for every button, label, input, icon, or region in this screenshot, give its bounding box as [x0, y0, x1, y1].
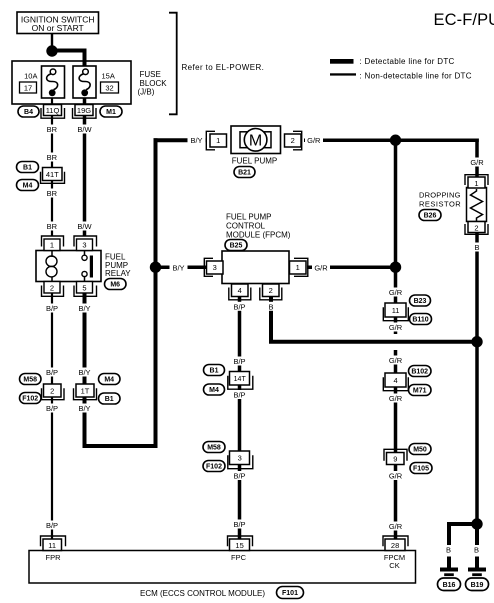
relay pin 3: [74, 236, 97, 247]
svg-text:G/R: G/R: [389, 356, 403, 365]
connector F102 oval: [20, 393, 42, 404]
svg-text:M4: M4: [104, 377, 114, 384]
svg-text:11Q: 11Q: [46, 106, 60, 115]
svg-text:B21: B21: [238, 170, 251, 177]
svg-text:B23: B23: [414, 298, 427, 305]
svg-text:EC-F/PUMP: EC-F/PUMP: [434, 11, 494, 29]
connector M71 oval: [409, 385, 432, 396]
wire ground branch left (thick): [449, 524, 477, 545]
relay coil: [51, 251, 53, 258]
connector B23 oval: [410, 295, 431, 306]
wire junction to fuse 15A (thick): [52, 51, 85, 67]
svg-text:BLOCK: BLOCK: [140, 79, 168, 88]
connector B25 oval: [225, 240, 247, 251]
label G/R at FPCM pin 1: [312, 262, 330, 272]
svg-text:M: M: [249, 133, 262, 150]
connector F105 oval: [410, 463, 432, 474]
label G/R: [387, 522, 405, 532]
wire ground stub B19: [475, 557, 479, 569]
connector 3 (M58/F102): [228, 455, 253, 468]
wire G/R column lower (thick): [394, 350, 398, 540]
svg-text:B/Y: B/Y: [172, 263, 184, 272]
svg-text:2: 2: [50, 283, 54, 292]
wire B/Y relay down (thick): [83, 293, 87, 448]
label B/P: [231, 471, 248, 481]
ECM box: [29, 551, 416, 584]
svg-text:B/W: B/W: [77, 222, 92, 231]
svg-text:MODULE (FPCM): MODULE (FPCM): [226, 230, 291, 239]
label G/R: [387, 471, 405, 481]
fuse number 32: [101, 82, 119, 93]
label B/P: [44, 521, 61, 531]
svg-text:1: 1: [216, 136, 220, 145]
svg-text:B/P: B/P: [233, 357, 245, 366]
svg-text:B/P: B/P: [233, 472, 245, 481]
wire B/Y riser x=155.5 (thick): [154, 138, 158, 448]
label B at ground B16: [444, 545, 454, 555]
svg-text:FUEL PUMP: FUEL PUMP: [232, 157, 278, 166]
svg-text:FUSE: FUSE: [140, 70, 161, 79]
label BR: [43, 189, 60, 199]
svg-text:5: 5: [82, 283, 86, 292]
svg-text:M1: M1: [106, 109, 116, 116]
svg-text:Refer to EL-POWER.: Refer to EL-POWER.: [182, 63, 265, 72]
label B/P: [231, 520, 248, 530]
svg-text:M58: M58: [207, 445, 221, 452]
svg-text:B/P: B/P: [233, 391, 245, 400]
fuel pump pin 1: [206, 131, 215, 150]
label B/Y horizontal at fuel pump: [188, 135, 206, 145]
svg-text:B/P: B/P: [46, 404, 58, 413]
fuse block J/B box: [12, 61, 131, 104]
svg-text:F102: F102: [22, 396, 38, 403]
relay pin 2: [42, 286, 64, 297]
svg-text:B1: B1: [23, 165, 32, 172]
svg-text:1T: 1T: [81, 387, 90, 396]
svg-text:3: 3: [82, 241, 86, 250]
svg-text:RELAY: RELAY: [105, 269, 131, 278]
svg-text:M58: M58: [23, 377, 37, 384]
FPCM body: [222, 251, 289, 284]
svg-text:41T: 41T: [46, 170, 59, 179]
svg-text:B/W: B/W: [77, 125, 92, 134]
svg-text:B19: B19: [471, 582, 484, 589]
svg-text:M71: M71: [413, 388, 427, 395]
fuel pump body: [231, 126, 281, 154]
svg-text:2: 2: [474, 223, 478, 232]
svg-text:B16: B16: [443, 582, 456, 589]
svg-text:M50: M50: [413, 447, 427, 454]
svg-text:1: 1: [474, 179, 478, 188]
svg-text:G/R: G/R: [314, 263, 328, 272]
ECM pin 15 FPC: [228, 536, 253, 546]
svg-text:B: B: [268, 302, 273, 311]
svg-text:B/Y: B/Y: [78, 368, 90, 377]
connector B102 oval: [409, 366, 432, 377]
svg-text:RESISTOR: RESISTOR: [419, 199, 461, 208]
svg-text:B/Y: B/Y: [190, 136, 202, 145]
svg-text:11: 11: [392, 306, 400, 315]
wire G/R FPCM pin 1 to junction (thick): [307, 265, 396, 269]
FPCM pin 1: [294, 258, 308, 276]
fuse F2 15A: [73, 66, 96, 98]
junction dot G/R top: [390, 135, 401, 146]
label B/W: [76, 125, 94, 135]
svg-text:BR: BR: [47, 189, 58, 198]
svg-text:B: B: [474, 243, 479, 252]
label G/R: [387, 394, 405, 404]
FPCM pin 2: [260, 288, 282, 300]
junction dot ignition feed: [46, 45, 57, 56]
connector 14T (B1/M4): [228, 376, 253, 389]
FPCM pin 3: [204, 258, 213, 276]
wire G/R-B dropping resistor column (thick): [475, 139, 479, 527]
svg-text:2: 2: [269, 286, 273, 295]
label G/R above resistor: [468, 158, 486, 168]
label B/Y: [76, 404, 93, 414]
svg-text:G/R: G/R: [389, 472, 403, 481]
wire B/P FPCM pin 4 to ECM (thick): [238, 296, 242, 539]
connector 11Q: [41, 108, 65, 118]
resistor zigzag: [471, 189, 483, 221]
svg-text:2: 2: [50, 387, 54, 396]
connector 19G: [73, 108, 97, 118]
connector B4: [18, 106, 39, 117]
label B/Y at FPCM pin 3: [170, 262, 188, 272]
connector M1: [100, 106, 122, 117]
svg-text:(J/B): (J/B): [138, 88, 155, 97]
relay pin 5: [74, 286, 97, 297]
junction dot G/R mid: [390, 262, 401, 273]
connector 9 (M50/F105): [384, 449, 407, 461]
label B/P: [231, 390, 248, 400]
svg-text:B25: B25: [230, 243, 243, 250]
fuse number 17: [20, 82, 37, 93]
svg-text:11: 11: [48, 541, 56, 550]
connector M50 oval: [409, 444, 431, 455]
label B/P: [44, 368, 61, 378]
legend detectable line: [330, 59, 354, 64]
wire BR column fuse to relay: [51, 96, 53, 236]
svg-text:B1: B1: [105, 396, 114, 403]
svg-text:17: 17: [24, 84, 32, 93]
junction dot B/Y at relay level: [150, 262, 161, 273]
ECM pin 11 FPR: [41, 536, 66, 546]
svg-text:DROPPING: DROPPING: [419, 190, 461, 199]
connector F101 oval: [277, 587, 304, 599]
wire B horizontal to resistor column (thick): [269, 340, 479, 344]
svg-text:BR: BR: [47, 222, 58, 231]
connector B1 oval: [204, 365, 225, 376]
wire B/Y to fuel pump pin 1 (thick): [154, 138, 207, 142]
connector M58 oval: [20, 374, 42, 385]
ignition switch box: [17, 12, 99, 34]
svg-text:ON or START: ON or START: [32, 23, 84, 33]
fuse F1 10A: [42, 66, 65, 98]
svg-text:B/P: B/P: [233, 520, 245, 529]
label B/P: [44, 304, 61, 314]
label B at ground B19: [472, 545, 482, 555]
wire ground stub B16: [447, 557, 451, 569]
svg-text:B1: B1: [210, 368, 219, 375]
svg-text:15: 15: [235, 541, 243, 550]
resistor pin 1: [465, 175, 488, 185]
wire B/W column fuse to relay (thick): [83, 96, 87, 236]
label BR: [43, 153, 60, 163]
svg-text:10A: 10A: [24, 72, 37, 81]
connector M58 oval: [203, 442, 225, 453]
svg-text:9: 9: [393, 455, 397, 464]
wire B/Y bottom corner (thick): [83, 444, 158, 448]
resistor body: [467, 188, 487, 222]
svg-text:2: 2: [291, 136, 295, 145]
svg-text:M4: M4: [23, 183, 33, 190]
svg-text:FUEL PUMP: FUEL PUMP: [226, 212, 272, 221]
svg-text:3: 3: [238, 454, 242, 463]
svg-text:B/P: B/P: [233, 302, 245, 311]
label B/Y: [76, 304, 93, 314]
label G/R: [387, 356, 405, 366]
svg-text:3: 3: [213, 263, 217, 272]
svg-text:F101: F101: [282, 590, 298, 597]
resistor pin 2: [465, 224, 488, 234]
wire ground right B19: [475, 526, 479, 545]
relay switch: [84, 251, 86, 256]
svg-text:1: 1: [50, 241, 54, 250]
svg-text:: Detectable line for DTC: : Detectable line for DTC: [360, 57, 455, 66]
label G/R: [387, 288, 405, 298]
svg-text:32: 32: [105, 84, 113, 93]
svg-text:F102: F102: [206, 464, 222, 471]
label B: [266, 302, 276, 312]
connector M4 oval: [204, 384, 225, 395]
svg-text:B102: B102: [411, 369, 428, 376]
ECM pin 28 FPCM CK: [383, 536, 408, 546]
svg-text:28: 28: [391, 541, 399, 550]
junction dot B at resistor column: [471, 336, 482, 347]
connector B1 oval: [17, 162, 39, 173]
connector M4 oval: [17, 180, 39, 191]
svg-text:F105: F105: [413, 466, 429, 473]
wire G/R column upper (thick): [394, 140, 398, 334]
connector 4 (B102/M71): [383, 377, 408, 390]
svg-text:M6: M6: [110, 282, 120, 289]
ground B16: [440, 568, 458, 572]
junction dot ground: [471, 518, 482, 529]
connector 41T: [41, 172, 65, 184]
FPCM pin 4: [229, 288, 251, 300]
svg-text:B/P: B/P: [46, 304, 58, 313]
svg-text:: Non-detectable line for DTC: : Non-detectable line for DTC: [360, 71, 472, 80]
legend non-detectable line: [330, 73, 356, 75]
label B/Y: [76, 368, 93, 378]
svg-text:M4: M4: [209, 387, 219, 394]
svg-text:G/R: G/R: [389, 394, 403, 403]
connector F102 oval: [203, 461, 225, 472]
wire B FPCM pin 2 down (thick): [269, 296, 273, 344]
svg-text:B/P: B/P: [46, 521, 58, 530]
bracket refer to EL-POWER: [169, 13, 177, 115]
connector 11 (B23/B110): [383, 307, 408, 320]
svg-text:B: B: [474, 546, 479, 555]
svg-text:4: 4: [238, 286, 242, 295]
svg-text:FPC: FPC: [231, 553, 247, 562]
svg-text:14T: 14T: [234, 376, 247, 383]
svg-text:CONTROL: CONTROL: [226, 221, 266, 230]
svg-text:B26: B26: [424, 213, 437, 220]
label B/P: [231, 357, 248, 367]
svg-text:G/R: G/R: [389, 323, 403, 332]
svg-text:ECM (ECCS CONTROL MODULE): ECM (ECCS CONTROL MODULE): [140, 589, 265, 598]
svg-text:G/R: G/R: [470, 158, 484, 167]
connector B21 oval: [234, 167, 255, 178]
connector 2 (M58/F102): [42, 388, 65, 400]
label B/P: [44, 404, 61, 414]
label G/R: [387, 323, 405, 333]
svg-text:G/R: G/R: [389, 288, 403, 297]
label BR: [43, 222, 60, 232]
label B below resistor: [472, 243, 482, 253]
connector B1 oval: [99, 393, 121, 404]
svg-text:B: B: [446, 546, 451, 555]
svg-text:1: 1: [296, 263, 300, 272]
svg-text:15A: 15A: [102, 72, 115, 81]
label B/P: [231, 302, 248, 312]
wire G/R fuel pump pin 2 to right corner (thick): [304, 139, 479, 143]
connector B26 oval: [419, 210, 441, 221]
wire ignition switch to junction: [51, 34, 53, 48]
svg-text:4: 4: [394, 376, 398, 385]
svg-text:B110: B110: [412, 317, 428, 324]
svg-text:19G: 19G: [77, 106, 91, 115]
wire B/P relay to ECM: [51, 293, 53, 539]
wire B/Y junction to FPCM pin 3 (thick): [156, 265, 207, 269]
connector 1T (M4/B1): [74, 388, 97, 400]
svg-text:G/R: G/R: [389, 522, 403, 531]
label B/W: [76, 222, 94, 232]
svg-text:B/P: B/P: [46, 368, 58, 377]
connector B110 oval: [410, 314, 432, 325]
svg-text:BR: BR: [47, 153, 58, 162]
svg-text:B/Y: B/Y: [78, 404, 90, 413]
connector M6 oval: [105, 279, 127, 290]
fuel pump pin 2: [293, 131, 302, 150]
svg-text:CK: CK: [389, 561, 399, 570]
ground B19: [468, 568, 486, 572]
svg-text:BR: BR: [47, 125, 58, 134]
label BR: [43, 125, 60, 135]
svg-text:FPR: FPR: [46, 553, 62, 562]
fuel pump relay body: [36, 251, 101, 282]
svg-text:B4: B4: [24, 109, 33, 116]
svg-text:G/R: G/R: [307, 136, 321, 145]
relay pin 1: [42, 236, 64, 247]
connector M4 oval: [99, 374, 121, 385]
label G/R after fuel pump: [305, 135, 323, 145]
svg-text:B/Y: B/Y: [78, 304, 90, 313]
